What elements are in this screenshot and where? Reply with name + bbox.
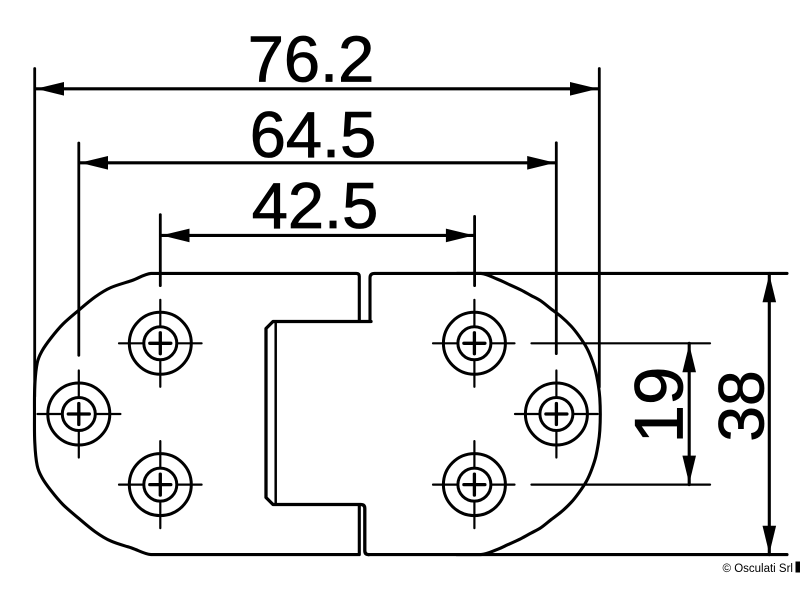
left leaf outline bbox=[34, 273, 359, 554]
hole H3 centerlines bbox=[119, 441, 202, 528]
extension line 76.2 right bbox=[598, 69, 601, 388]
arrow 64.5 right bbox=[527, 156, 555, 170]
hole H5 middle-right circles bbox=[525, 383, 587, 445]
extension line 38 bottom bbox=[457, 553, 787, 556]
extension line 19 bottom row segment bbox=[532, 484, 711, 486]
extension line 42.5 right bbox=[473, 216, 476, 285]
hole H1 top-left circles bbox=[129, 312, 191, 374]
arrow 42.5 right bbox=[446, 229, 474, 243]
hole H1 centerlines bbox=[119, 300, 202, 387]
extension line 38 top bbox=[457, 272, 787, 275]
svg-text:42.5: 42.5 bbox=[252, 169, 379, 242]
hole H2 center cross bbox=[68, 404, 89, 425]
right leaf outline bbox=[369, 273, 601, 554]
svg-text:19: 19 bbox=[621, 367, 698, 444]
hole H6 vertical centerline bbox=[433, 441, 515, 528]
svg-text:64.5: 64.5 bbox=[250, 98, 377, 171]
svg-text:38: 38 bbox=[706, 370, 778, 441]
hole H4 vertical centerline bbox=[433, 300, 515, 387]
arrow 38 down bbox=[763, 526, 777, 554]
dimension line 38 bbox=[768, 273, 771, 554]
arrow 76.2 right bbox=[570, 82, 598, 96]
extension line 19 top row segment bbox=[532, 342, 711, 344]
tab chamfered outline bbox=[266, 322, 371, 555]
arrow 42.5 left bbox=[162, 229, 190, 243]
hole H3 bottom-left circles bbox=[129, 454, 191, 516]
dimension line 64.5 bbox=[80, 161, 555, 164]
arrow 76.2 left bbox=[36, 82, 64, 96]
arrow 38 up bbox=[763, 274, 777, 302]
hole H4 top-right circles bbox=[443, 312, 505, 374]
watermark bar bbox=[796, 562, 800, 573]
hole H6 bottom-right circles bbox=[443, 454, 505, 516]
svg-text:76.2: 76.2 bbox=[248, 23, 375, 96]
hole H5 centerlines bbox=[515, 371, 598, 458]
hole H2 centerlines bbox=[38, 371, 121, 458]
extension line 42.5 left bbox=[159, 215, 162, 286]
svg-text:© Osculati Srl: © Osculati Srl bbox=[723, 563, 793, 575]
hole H4 center cross bbox=[464, 333, 485, 354]
dimension line 19 bbox=[688, 343, 691, 484]
notch inner edge line bbox=[274, 322, 277, 505]
extension line 64.5 right bbox=[555, 143, 558, 354]
arrow 19 up bbox=[682, 344, 696, 372]
hole H5 center cross bbox=[546, 404, 567, 425]
arrow 64.5 left bbox=[80, 156, 108, 170]
hole H2 middle-left circles bbox=[48, 383, 110, 445]
hole H1 center cross bbox=[150, 333, 171, 354]
extension line 76.2 left bbox=[33, 69, 36, 397]
hole H6 center cross bbox=[464, 474, 485, 495]
dimension line 76.2 bbox=[36, 87, 598, 90]
hole H3 center cross bbox=[150, 474, 171, 495]
arrow 19 down bbox=[682, 456, 696, 484]
dimension line 42.5 bbox=[162, 234, 474, 237]
extension line 64.5 left bbox=[77, 143, 80, 355]
